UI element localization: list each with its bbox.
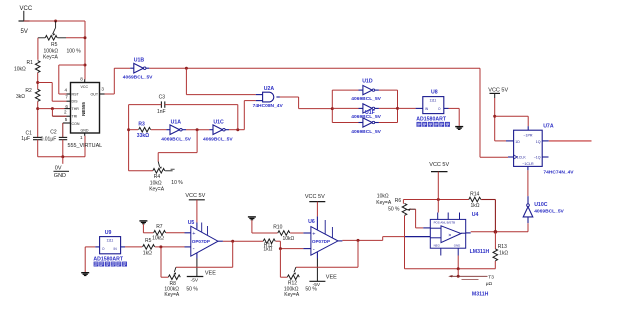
- svg-text:VEE: VEE: [205, 271, 216, 277]
- wire C3 left lead and loop left vertical: [129, 104, 162, 106]
- ground U9: [81, 272, 89, 276]
- VCC power symbol U6: [305, 194, 325, 202]
- svg-text:R3: R3: [138, 121, 145, 127]
- wire U8 right to ground: [444, 107, 449, 109]
- wire rail up to 555 GND pin: [84, 136, 86, 157]
- svg-text:OP07DP: OP07DP: [192, 239, 210, 244]
- svg-text:AD1580ART: AD1580ART: [93, 256, 124, 262]
- svg-text:10kΩ: 10kΩ: [283, 236, 295, 242]
- svg-text:CON: CON: [72, 122, 80, 126]
- svg-text:74HC08N_4V: 74HC08N_4V: [253, 103, 284, 109]
- VCC power symbol U7A: [488, 88, 508, 98]
- svg-text:1111: 1111: [107, 239, 114, 243]
- ground R10: [248, 216, 256, 220]
- inverter U1B: [123, 58, 153, 81]
- svg-text:50 %: 50 %: [186, 286, 198, 292]
- svg-text:>: >: [449, 233, 452, 238]
- svg-text:Key=A: Key=A: [284, 292, 300, 298]
- resistor R7: [152, 224, 166, 242]
- ground R7: [139, 220, 147, 224]
- svg-text:R10: R10: [273, 225, 282, 231]
- svg-text:1D: 1D: [515, 140, 520, 144]
- svg-text:1kΩ: 1kΩ: [499, 250, 508, 256]
- probe T3: [448, 269, 494, 287]
- inverter U1E: [332, 118, 397, 135]
- svg-text:3kΩ: 3kΩ: [16, 94, 25, 100]
- wire U9 right pin to R5: [121, 246, 125, 248]
- wire C3 right lead: [165, 104, 238, 106]
- wire VCC to U5 V+: [196, 200, 198, 223]
- inverter U1A: [161, 120, 191, 143]
- svg-text:8: 8: [80, 76, 83, 81]
- svg-text:RST: RST: [72, 92, 80, 96]
- VEE power symbol U6: [309, 259, 337, 288]
- capacitor C3: [157, 95, 166, 116]
- wire U5 feedback to R8: [232, 241, 234, 267]
- wire U4 output: [466, 232, 471, 234]
- ground GND 0V symbol: [54, 157, 70, 179]
- wire bank right vertical: [397, 90, 399, 122]
- inverter U1F: [332, 104, 397, 120]
- junction node (37.7,108.6): [36, 107, 39, 110]
- potentiometer R8: [161, 267, 198, 298]
- ground U8: [455, 126, 463, 130]
- wire U1A out to U1C: [186, 129, 209, 131]
- svg-text:4069BCL_5V: 4069BCL_5V: [123, 75, 153, 81]
- junction node (495.4,231.8): [494, 230, 498, 234]
- svg-text:OUT: OUT: [91, 92, 99, 96]
- ultrasonic transmitter U8: [416, 90, 447, 123]
- svg-text:C2: C2: [50, 130, 57, 136]
- resistor R14: [469, 192, 481, 210]
- svg-text:OP07DP: OP07DP: [312, 239, 330, 244]
- svg-text:+: +: [312, 232, 315, 238]
- wire U7A Q output: [542, 140, 549, 142]
- wire VCC to U7A PRE and D: [494, 98, 496, 141]
- svg-text:7: 7: [65, 95, 68, 100]
- svg-text:THR: THR: [72, 107, 80, 111]
- junction node (37.7,82.5): [36, 81, 39, 84]
- svg-text:R5: R5: [145, 238, 152, 244]
- comparator U4: [430, 212, 489, 256]
- wire U1A feedback to R4 wiper: [196, 130, 198, 153]
- svg-text:4069BCL_5V: 4069BCL_5V: [351, 96, 381, 102]
- svg-text:~1CLR: ~1CLR: [522, 162, 534, 166]
- capacitor C2: [41, 130, 68, 143]
- svg-text:NE555: NE555: [81, 102, 86, 116]
- wire pot left down to R1: [37, 38, 39, 60]
- pin U7A ~Q stub: [542, 156, 548, 158]
- svg-text:1Q: 1Q: [536, 140, 541, 144]
- svg-text:1CLK: 1CLK: [517, 155, 527, 159]
- wire C2 bottom to ground rail: [62, 140, 64, 157]
- svg-text:GND: GND: [454, 243, 460, 247]
- wire U5 output: [218, 240, 223, 242]
- wire U7A CLR down to U10C: [527, 166, 529, 170]
- wire CON to C2: [63, 122, 71, 124]
- svg-text:VCC 5V: VCC 5V: [305, 194, 325, 200]
- svg-text:C3: C3: [159, 95, 166, 101]
- svg-text:10kΩ: 10kΩ: [377, 194, 389, 200]
- svg-text:VCC 5V: VCC 5V: [185, 193, 205, 199]
- resistor R2: [16, 88, 40, 101]
- junction node (52.4,108.6): [51, 107, 54, 110]
- svg-text:U7A: U7A: [543, 124, 554, 130]
- svg-text:R2: R2: [25, 88, 32, 94]
- resistor R11: [263, 239, 275, 253]
- wire C1 bottom to ground rail: [37, 140, 39, 157]
- svg-text:R14: R14: [470, 192, 479, 198]
- svg-text:μΩ: μΩ: [486, 281, 493, 287]
- junction node (237.8,129.7): [236, 128, 239, 131]
- inverter U1C: [203, 120, 233, 143]
- svg-text:5: 5: [65, 117, 68, 122]
- svg-text:U8: U8: [431, 90, 438, 96]
- wire up to U2A input B: [243, 101, 245, 130]
- svg-text:3: 3: [101, 87, 104, 92]
- svg-text:0.01μF: 0.01μF: [41, 137, 57, 143]
- op-amp U5: [188, 220, 218, 259]
- potentiometer R12: [280, 267, 317, 298]
- potentiometer R5: [38, 36, 81, 61]
- svg-text:33kΩ: 33kΩ: [137, 133, 149, 139]
- wire U9 left pin to ground: [95, 246, 99, 248]
- junction node (358,240.4): [357, 239, 360, 242]
- svg-text:M311H: M311H: [472, 291, 489, 297]
- junction node (280.4,248.6): [279, 247, 282, 250]
- wire R2 down to C1: [37, 101, 39, 137]
- svg-text:VCC 5V: VCC 5V: [488, 88, 508, 94]
- svg-text:74HC74N_4V: 74HC74N_4V: [543, 170, 574, 176]
- svg-text:GND: GND: [54, 173, 66, 179]
- junction node (458.2,268.7): [457, 267, 460, 270]
- wire R7 to U5 plus input: [166, 232, 185, 234]
- svg-text:+: +: [192, 231, 195, 237]
- svg-text:DIS: DIS: [72, 100, 79, 104]
- svg-text:1nF: 1nF: [157, 109, 166, 115]
- svg-text:10kΩ: 10kΩ: [152, 236, 164, 242]
- wire R10 to U6 plus input: [290, 232, 303, 234]
- svg-text:Key=A: Key=A: [164, 292, 180, 298]
- svg-text:4069BCL_5V: 4069BCL_5V: [351, 129, 381, 135]
- svg-text:4: 4: [65, 88, 68, 93]
- wire DIS branch: [38, 82, 53, 84]
- potentiometer R4: [129, 162, 184, 193]
- inverter U1D: [332, 79, 397, 102]
- svg-text:50 %: 50 %: [388, 207, 400, 213]
- VEE power symbol U5: [187, 259, 216, 284]
- svg-text:0V: 0V: [55, 165, 62, 171]
- svg-text:U4: U4: [472, 212, 479, 218]
- svg-text:1111: 1111: [430, 99, 437, 103]
- svg-text:U10C: U10C: [534, 202, 548, 208]
- svg-text:10 %: 10 %: [171, 180, 183, 186]
- svg-text:2: 2: [64, 109, 67, 114]
- svg-text:U1C: U1C: [213, 120, 224, 126]
- op-amp U6: [308, 216, 338, 258]
- svg-text:100 %: 100 %: [67, 48, 82, 54]
- svg-text:~1Q: ~1Q: [534, 155, 541, 159]
- wire R5 wiper: [52, 21, 55, 36]
- wire U6 feedback to R12: [357, 240, 359, 267]
- svg-text:Key=A: Key=A: [149, 186, 165, 192]
- wire U6 output: [338, 240, 342, 242]
- wire U1C out / C3 right vertical: [229, 129, 244, 131]
- 555 timer U(555) box: [64, 76, 105, 140]
- svg-text:NEG: NEG: [434, 243, 441, 247]
- svg-text:4069BCL_5V: 4069BCL_5V: [203, 137, 233, 143]
- svg-text:U6: U6: [308, 219, 315, 225]
- svg-text:AD1580ART: AD1580ART: [416, 117, 447, 123]
- wire R13 leads: [494, 232, 496, 249]
- junction node (438.3,199.5): [437, 198, 440, 201]
- wire R8 left up to minus node: [160, 247, 162, 277]
- D flip-flop U7A: [514, 124, 575, 176]
- svg-text:VCC: VCC: [81, 85, 89, 89]
- svg-text:-5V: -5V: [191, 278, 199, 284]
- wire THR branch: [38, 108, 65, 110]
- svg-text:U9: U9: [105, 230, 112, 236]
- svg-text:U1D: U1D: [362, 79, 373, 85]
- svg-text:1kΩ: 1kΩ: [471, 203, 480, 209]
- svg-text:4069BCL_5V: 4069BCL_5V: [161, 137, 191, 143]
- junction node (85,37.8): [84, 36, 87, 39]
- svg-text:LM311H: LM311H: [470, 249, 490, 255]
- svg-text:TRI: TRI: [72, 115, 78, 119]
- junction node (160.9,246.9): [159, 245, 162, 248]
- svg-text:VCC 5V: VCC 5V: [429, 162, 449, 168]
- node wiper junction: [54, 20, 57, 23]
- junction node (197.1,129.7): [196, 128, 199, 131]
- junction node (397.5,108.4): [396, 107, 399, 110]
- wire R12 left up to minus node: [279, 249, 281, 278]
- junction node (128.6,129.7): [127, 128, 130, 131]
- svg-text:1kΩ: 1kΩ: [143, 251, 152, 257]
- svg-text:R12: R12: [288, 281, 297, 287]
- VCC power symbol top-left: [19, 6, 33, 35]
- wire U6 out jog to U4 input: [382, 237, 384, 241]
- svg-text:Key=A: Key=A: [376, 200, 392, 206]
- svg-text:R7: R7: [156, 224, 163, 230]
- junction node (186.4,68.2): [185, 67, 188, 70]
- wire VCC to U6 V+: [316, 202, 318, 217]
- svg-text:VEE: VEE: [326, 274, 337, 280]
- wire R11 to U6 minus input: [276, 240, 281, 242]
- svg-text:-: -: [193, 247, 195, 253]
- wire R1 to R2: [37, 73, 39, 90]
- junction node (62.8,156.8): [61, 155, 64, 158]
- svg-text:6: 6: [65, 104, 68, 109]
- svg-text:U5: U5: [188, 220, 195, 226]
- junction node (458.2,276.3): [457, 275, 460, 278]
- wire long top rail: [149, 67, 480, 69]
- junction node (332.3,108.6): [331, 107, 334, 110]
- wire R3 to U1A: [151, 129, 167, 131]
- svg-text:U1A: U1A: [171, 120, 182, 126]
- wire ground rail: [38, 156, 85, 158]
- wire ground to R10: [251, 220, 253, 233]
- svg-text:R6: R6: [395, 198, 402, 204]
- svg-text:~1PR: ~1PR: [523, 133, 532, 137]
- wire VCC vertical to 555 pin8: [84, 21, 86, 80]
- wire VCC rail: [24, 20, 85, 22]
- wire RST branch: [59, 64, 85, 66]
- VCC power symbol U5: [185, 193, 205, 200]
- AND gate U2A: [253, 86, 284, 109]
- potentiometer R6: [376, 194, 415, 216]
- resistor R5b 1k: [143, 238, 155, 257]
- svg-text:R4: R4: [154, 174, 161, 180]
- wire U10C input from U4 output: [527, 223, 529, 232]
- svg-text:-: -: [313, 247, 315, 253]
- svg-text:10kΩ: 10kΩ: [14, 66, 26, 72]
- VCC power symbol U4: [429, 162, 449, 172]
- wire R14 right to output node: [481, 199, 495, 201]
- wire top rail right corner down: [479, 68, 481, 157]
- resistor R1: [14, 60, 40, 73]
- svg-text:50 %: 50 %: [305, 286, 317, 292]
- svg-text:R5: R5: [51, 42, 58, 48]
- svg-text:1μF: 1μF: [21, 136, 30, 142]
- svg-text:U2A: U2A: [264, 86, 275, 92]
- wire bank to U8: [398, 107, 416, 109]
- svg-text:Key=A: Key=A: [43, 54, 59, 60]
- svg-text:5V: 5V: [21, 29, 28, 35]
- label transmitter chinese: [417, 122, 450, 127]
- svg-text:T3: T3: [488, 274, 494, 280]
- wire R5 to U5 minus input: [155, 246, 185, 248]
- svg-text:POS ANL B/STB: POS ANL B/STB: [434, 220, 455, 224]
- svg-text:100kΩ: 100kΩ: [44, 48, 59, 54]
- wire U2A out to inverter bank: [280, 96, 299, 98]
- wire to U7A CLK: [480, 156, 508, 158]
- wire U4 gnd pin down: [457, 256, 459, 269]
- wire R6 bottom down to low net: [404, 216, 406, 269]
- wire 555 OUT to U1B: [105, 93, 115, 95]
- wire pot right to VCC vertical: [66, 37, 85, 39]
- svg-text:VCC: VCC: [20, 6, 33, 12]
- wire ground to R7: [142, 224, 144, 233]
- svg-text:GND: GND: [81, 129, 89, 133]
- wire bank left vertical: [331, 90, 333, 122]
- junction node (494.7,116.2): [493, 115, 496, 118]
- inverter U10C: [523, 196, 564, 223]
- svg-text:U1B: U1B: [134, 58, 145, 64]
- capacitor C1: [21, 130, 42, 142]
- junction node (85,65): [84, 64, 87, 67]
- wire R6 top to R14 net: [402, 200, 404, 204]
- resistor R13: [493, 244, 508, 261]
- wire R6 wiper to U4 plus input: [415, 209, 417, 228]
- svg-text:1: 1: [80, 135, 83, 140]
- wire VCC down to U4: [437, 172, 439, 213]
- resistor R3: [129, 121, 151, 138]
- wire TRI branch: [51, 109, 53, 117]
- svg-text:555_VIRTUAL: 555_VIRTUAL: [68, 143, 103, 149]
- svg-text:1kΩ: 1kΩ: [263, 246, 272, 252]
- svg-text:R13: R13: [498, 244, 507, 250]
- svg-text:R1: R1: [27, 60, 34, 66]
- resistor R10: [273, 225, 294, 243]
- ultrasonic receiver U9: [93, 230, 124, 263]
- label receiver chinese: [94, 262, 127, 267]
- svg-text:4069BCL_5V: 4069BCL_5V: [534, 209, 564, 215]
- junction node (232.7,241.2): [231, 240, 234, 243]
- wire drop to U2A input A: [185, 68, 187, 94]
